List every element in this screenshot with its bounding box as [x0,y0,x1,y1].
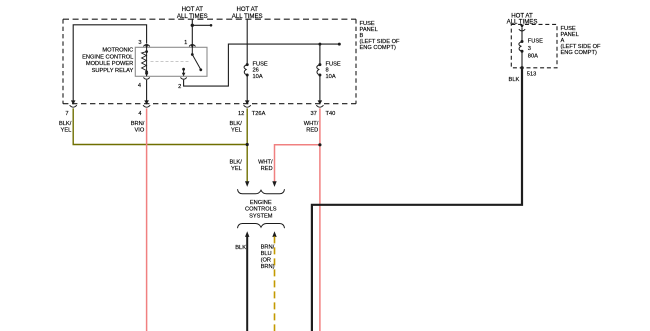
fuse F26 [244,65,247,75]
svg-text:ENG COMPT): ENG COMPT) [561,50,597,56]
wire stub branch right [192,24,210,26]
svg-text:3: 3 [528,46,531,52]
fuse panel B dashed box [63,19,356,104]
svg-text:ENGINE CONTROL: ENGINE CONTROL [82,54,133,60]
fuse F26 value label [253,62,268,80]
fuse F8 [319,44,321,65]
svg-text:8: 8 [326,68,329,74]
svg-text:7: 7 [65,111,68,117]
svg-text:CONTROLS: CONTROLS [245,207,277,213]
relay name label [82,48,133,74]
svg-text:ALL TIMES: ALL TIMES [232,13,263,20]
pin 4 connector symbol [143,77,149,79]
svg-text:BRN): BRN) [261,264,275,270]
node WHT/RED splice [318,143,321,146]
wire WHT/RED label pin 37 [304,121,319,133]
wire BLK/YEL label pin 7 [59,121,72,133]
wire relay pin 3 to pin 7 [73,25,146,101]
svg-text:37: 37 [310,111,316,117]
wire BRN/BLU label [261,245,275,271]
svg-text:VIO: VIO [134,127,144,133]
svg-text:YEL: YEL [231,166,242,172]
node fuse 8 tap [318,43,321,46]
fuse panel B label [360,21,401,51]
wire WHT/RED branch to ECS [275,145,320,182]
wire BLK/YEL label pin 12 [229,121,242,133]
node 513 [520,66,523,69]
ECS bottom brace [238,224,285,229]
wire WHT/RED label above ECS [258,159,273,172]
svg-text:SYSTEM: SYSTEM [249,214,273,220]
hot at all times label 3 [507,12,538,25]
svg-text:FUSE: FUSE [326,62,341,68]
fuse F8 value label [326,62,341,80]
svg-text:2: 2 [178,84,181,90]
pin 37 border crossing [316,100,323,107]
svg-text:BRN/: BRN/ [131,121,145,127]
svg-text:3: 3 [138,40,141,46]
svg-text:10A: 10A [326,74,336,80]
svg-text:ENGINE: ENGINE [250,200,272,206]
arrow BLK out of ECS [245,231,249,237]
pin 2 connector symbol [180,77,186,79]
arrow BRN/BLU out of ECS [272,231,276,237]
pin 12 border crossing [244,100,251,107]
wire BRN/VIO label pin 4 [131,121,145,133]
arrow WHT/RED into ECS [272,181,276,187]
wire fuse 8 to pin 37 [319,75,321,101]
ECS top brace [238,189,285,194]
relay pin 2 contact [182,68,185,71]
node junction on pin 1 feed [191,24,194,27]
svg-text:WHT/: WHT/ [258,159,273,165]
node BLK/YEL splice [246,143,249,146]
svg-text:YEL: YEL [231,127,242,133]
svg-text:T26A: T26A [252,111,266,117]
node rail end [338,43,341,46]
wire BLK from fuse panel A [312,68,522,331]
svg-text:12: 12 [238,111,244,117]
fuse F3 [519,42,522,52]
svg-text:BRN/: BRN/ [261,245,275,251]
pin 3 connector symbol [143,45,149,47]
svg-text:80A: 80A [528,53,538,59]
svg-text:513: 513 [527,71,537,77]
relay coil zigzag [142,52,147,72]
svg-text:BLK/: BLK/ [229,121,242,127]
svg-text:RED: RED [306,127,318,133]
pin 4 exit arrow [145,73,149,77]
wire pin 4 to border [146,80,148,101]
wire fuse 26 to pin 12 [246,75,248,101]
svg-text:T40: T40 [326,111,336,117]
relay switch [191,47,193,54]
arrow BLK/YEL into ECS [245,181,249,187]
svg-text:26: 26 [253,68,259,74]
svg-text:SUPPLY RELAY: SUPPLY RELAY [92,68,134,74]
wire pin 2 to fuse 8 rail [184,44,340,86]
svg-text:BLK: BLK [509,77,520,83]
svg-text:(OR: (OR [261,258,271,264]
fuse panel A dashed box [511,24,557,67]
svg-text:BLK/: BLK/ [229,159,242,165]
svg-text:10A: 10A [253,74,263,80]
hot at all times label 2 [232,6,263,20]
svg-text:RED: RED [261,166,273,172]
pin 1 connector symbol [189,45,195,47]
panel A entry connector [519,25,525,31]
hot at all times label 1 [177,6,208,20]
svg-text:YEL: YEL [61,127,72,133]
svg-text:BLK: BLK [235,245,246,251]
wire BRN/VIO red from pin 4 [146,108,148,331]
svg-text:MOTRONIC: MOTRONIC [102,48,133,54]
svg-text:FUSE: FUSE [253,62,268,68]
wire BLK from ECS [246,236,248,331]
wire hot feed to fuse 26 [246,19,248,64]
wire fuse 3 to node 513 [521,51,523,68]
svg-text:1: 1 [184,40,187,46]
relay coil wire [146,47,148,76]
pin 7 border crossing [70,100,77,107]
svg-text:4: 4 [138,111,141,117]
wire BLK/YEL olive from pin 7 [73,108,247,144]
relay linkage dashed [151,61,190,63]
wire BLK/YEL label above ECS [229,159,242,172]
svg-text:ENG COMPT): ENG COMPT) [360,45,396,51]
svg-text:WHT/: WHT/ [304,121,319,127]
svg-text:BLU: BLU [261,251,272,257]
fuse panel A label [561,26,602,56]
engine controls system label [245,200,277,220]
relay U1 box [135,47,207,76]
wire WHT/RED red from pin 37 [319,108,321,331]
svg-text:4: 4 [138,83,141,89]
fuse F3 value label [528,39,543,60]
wire hot feed to fuse 3 [521,28,523,42]
svg-text:FUSE: FUSE [528,39,543,45]
wire BLK/YEL olive from pin 12 [246,108,248,181]
wire BRN/BLU dashed from ECS [274,236,276,331]
wire hot feed to relay pin 1 [191,19,193,46]
svg-text:ALL TIMES: ALL TIMES [177,13,208,20]
pin 4 border crossing [143,100,150,107]
svg-text:MODULE POWER: MODULE POWER [86,61,133,67]
svg-text:BLK/: BLK/ [59,121,72,127]
